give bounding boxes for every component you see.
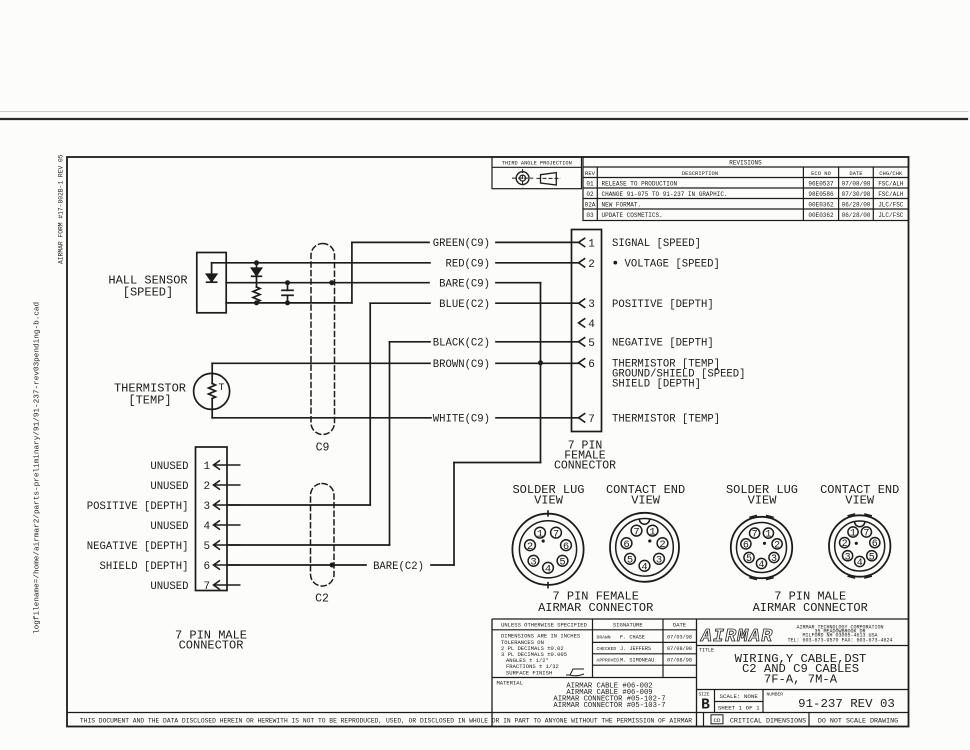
svg-text:1: 1 bbox=[204, 461, 211, 473]
svg-text:UNUSED: UNUSED bbox=[150, 521, 188, 533]
svg-text:7: 7 bbox=[633, 526, 639, 538]
svg-text:2: 2 bbox=[842, 539, 848, 550]
svg-text:FSC/ALH: FSC/ALH bbox=[878, 180, 904, 187]
svg-text:THIRD ANGLE PROJECTION: THIRD ANGLE PROJECTION bbox=[502, 160, 572, 166]
svg-text:4: 4 bbox=[588, 319, 595, 331]
svg-text:FSC/ALH: FSC/ALH bbox=[878, 191, 904, 198]
svg-text:06/28/00: 06/28/00 bbox=[842, 212, 871, 219]
svg-text:2: 2 bbox=[204, 481, 211, 493]
svg-text:JLC/FSC: JLC/FSC bbox=[878, 201, 904, 208]
svg-text:UPDATE COSMETICS.: UPDATE COSMETICS. bbox=[602, 212, 663, 219]
svg-text:00E0362: 00E0362 bbox=[808, 212, 834, 219]
svg-text:SHIELD [DEPTH]: SHIELD [DEPTH] bbox=[612, 379, 701, 391]
svg-text:DRAWN: DRAWN bbox=[597, 635, 611, 641]
svg-text:1: 1 bbox=[765, 530, 771, 541]
svg-text:[SPEED]: [SPEED] bbox=[123, 286, 173, 300]
svg-text:SIZE: SIZE bbox=[699, 691, 710, 697]
svg-text:2: 2 bbox=[588, 259, 595, 271]
svg-text:6: 6 bbox=[872, 539, 878, 550]
svg-text:02: 02 bbox=[586, 191, 594, 198]
svg-text:DATE: DATE bbox=[673, 622, 687, 629]
svg-text:SCALE: NONE: SCALE: NONE bbox=[720, 693, 759, 700]
svg-text:06/28/00: 06/28/00 bbox=[842, 201, 871, 208]
svg-text:SIGNATURE: SIGNATURE bbox=[613, 622, 643, 629]
svg-text:6: 6 bbox=[588, 359, 595, 371]
svg-text:96E0537: 96E0537 bbox=[808, 180, 834, 187]
svg-text:4: 4 bbox=[857, 558, 863, 569]
svg-text:C2: C2 bbox=[315, 593, 329, 606]
svg-text:CONNECTOR: CONNECTOR bbox=[179, 638, 244, 652]
svg-text:CHG/CHK: CHG/CHK bbox=[879, 170, 903, 177]
svg-text:AIRMAR CONNECTOR: AIRMAR CONNECTOR bbox=[538, 601, 653, 615]
svg-text:SIGNAL [SPEED]: SIGNAL [SPEED] bbox=[612, 238, 701, 250]
svg-text:UNLESS OTHERWISE SPECIFIED: UNLESS OTHERWISE SPECIFIED bbox=[501, 622, 588, 629]
svg-text:logfilename=/home/airmar2/part: logfilename=/home/airmar2/parts-prelimin… bbox=[34, 302, 42, 634]
svg-text:7: 7 bbox=[204, 581, 211, 593]
svg-text:5: 5 bbox=[746, 554, 752, 565]
svg-text:07/08/98: 07/08/98 bbox=[667, 657, 692, 663]
svg-text:UNUSED: UNUSED bbox=[150, 581, 188, 593]
svg-text:[TEMP]: [TEMP] bbox=[128, 394, 171, 408]
svg-text:7: 7 bbox=[863, 529, 869, 540]
svg-text:B: B bbox=[701, 698, 710, 714]
svg-text:3: 3 bbox=[204, 501, 211, 513]
svg-text:NEGATIVE [DEPTH]: NEGATIVE [DEPTH] bbox=[87, 541, 189, 553]
svg-text:RED(C9): RED(C9) bbox=[445, 259, 490, 271]
svg-text:07/30/98: 07/30/98 bbox=[842, 191, 871, 198]
svg-text:1: 1 bbox=[588, 238, 595, 250]
svg-text:03: 03 bbox=[586, 212, 594, 219]
svg-text:RELEASE TO PRODUCTION: RELEASE TO PRODUCTION bbox=[602, 180, 678, 187]
svg-text:CHANGE 91-075 TO 91-237 IN GRA: CHANGE 91-075 TO 91-237 IN GRAPHIC. bbox=[602, 191, 728, 198]
svg-text:UNUSED: UNUSED bbox=[150, 461, 188, 473]
svg-text:VOLTAGE [SPEED]: VOLTAGE [SPEED] bbox=[625, 259, 720, 271]
svg-text:CONNECTOR: CONNECTOR bbox=[554, 459, 616, 472]
svg-text:UNUSED: UNUSED bbox=[150, 481, 188, 493]
svg-text:C9: C9 bbox=[316, 442, 330, 455]
svg-text:NEGATIVE [DEPTH]: NEGATIVE [DEPTH] bbox=[612, 338, 714, 350]
svg-text:SURFACE FINISH: SURFACE FINISH bbox=[506, 670, 552, 677]
svg-text:DATE: DATE bbox=[849, 170, 863, 177]
svg-text:02A: 02A bbox=[585, 201, 596, 208]
svg-text:F. CHASE: F. CHASE bbox=[620, 635, 645, 641]
svg-text:BROWN(C9): BROWN(C9) bbox=[433, 359, 490, 371]
svg-text:6: 6 bbox=[563, 541, 569, 553]
svg-text:ECO NO: ECO NO bbox=[811, 170, 832, 177]
svg-text:3: 3 bbox=[771, 554, 777, 565]
svg-text:07/03/98: 07/03/98 bbox=[667, 635, 692, 641]
svg-text:4: 4 bbox=[545, 564, 551, 576]
svg-text:07/08/98: 07/08/98 bbox=[842, 180, 871, 187]
svg-text:2: 2 bbox=[527, 541, 533, 553]
svg-text:6: 6 bbox=[204, 561, 211, 573]
svg-text:98E0586: 98E0586 bbox=[808, 191, 834, 198]
svg-text:AIRMAR CONNECTOR: AIRMAR CONNECTOR bbox=[753, 601, 868, 615]
svg-text:BARE(C9): BARE(C9) bbox=[439, 279, 490, 291]
svg-text:2: 2 bbox=[774, 541, 780, 552]
svg-text:00E0362: 00E0362 bbox=[808, 201, 834, 208]
svg-text:NUMBER: NUMBER bbox=[767, 692, 784, 698]
svg-text:J. JEFFERS: J. JEFFERS bbox=[620, 646, 651, 652]
svg-text:CHECKED: CHECKED bbox=[597, 646, 617, 652]
svg-text:POSITIVE [DEPTH]: POSITIVE [DEPTH] bbox=[87, 501, 189, 513]
svg-text:7: 7 bbox=[752, 530, 758, 541]
svg-text:TITLE: TITLE bbox=[699, 647, 714, 653]
svg-text:VIEW: VIEW bbox=[748, 493, 778, 507]
svg-text:VIEW: VIEW bbox=[534, 493, 564, 507]
svg-text:CRITICAL DIMENSIONS: CRITICAL DIMENSIONS bbox=[730, 717, 806, 725]
svg-text:3: 3 bbox=[845, 552, 851, 563]
svg-text:1: 1 bbox=[850, 529, 856, 540]
svg-text:91-237 REV 03: 91-237 REV 03 bbox=[798, 697, 895, 711]
svg-text:2: 2 bbox=[659, 539, 665, 551]
svg-text:07/08/98: 07/08/98 bbox=[667, 646, 692, 652]
svg-text:APPROVED: APPROVED bbox=[597, 657, 620, 663]
svg-text:VIEW: VIEW bbox=[631, 493, 661, 507]
svg-text:5: 5 bbox=[559, 557, 565, 569]
svg-text:SHIELD [DEPTH]: SHIELD [DEPTH] bbox=[99, 561, 188, 573]
svg-text:JLC/FSC: JLC/FSC bbox=[878, 212, 904, 219]
svg-text:5: 5 bbox=[627, 555, 633, 567]
svg-text:7: 7 bbox=[553, 528, 559, 540]
svg-text:REVISIONS: REVISIONS bbox=[729, 160, 762, 167]
svg-text:4: 4 bbox=[204, 521, 211, 533]
svg-text:BARE(C2): BARE(C2) bbox=[373, 561, 424, 573]
svg-text:AIRMAR CONNECTOR #05-103-7: AIRMAR CONNECTOR #05-103-7 bbox=[553, 702, 665, 710]
svg-text:5: 5 bbox=[869, 552, 875, 563]
svg-text:WHITE(C9): WHITE(C9) bbox=[433, 414, 490, 426]
svg-text:NEW FORMAT.: NEW FORMAT. bbox=[602, 201, 642, 208]
svg-text:M. SIMONEAU: M. SIMONEAU bbox=[620, 657, 654, 663]
svg-text:7F-A, 7M-A: 7F-A, 7M-A bbox=[764, 672, 838, 686]
svg-text:7: 7 bbox=[588, 414, 595, 426]
svg-text:3: 3 bbox=[588, 299, 595, 311]
svg-text:AIRMAR: AIRMAR bbox=[700, 627, 772, 647]
svg-text:DESCRIPTION: DESCRIPTION bbox=[682, 170, 718, 177]
svg-text:SHEET 1 OF 1: SHEET 1 OF 1 bbox=[718, 704, 760, 711]
svg-text:VIEW: VIEW bbox=[845, 493, 875, 507]
svg-text:TEL: 603-673-9570 FAX: 603-67: TEL: 603-673-9570 FAX: 603-673-4624 bbox=[787, 638, 892, 644]
svg-text:4: 4 bbox=[641, 562, 647, 574]
svg-text:BLUE(C2): BLUE(C2) bbox=[439, 299, 490, 311]
svg-text:T: T bbox=[219, 383, 225, 394]
svg-text:3: 3 bbox=[530, 557, 536, 569]
svg-text:4: 4 bbox=[758, 560, 764, 571]
svg-text:BLACK(C2): BLACK(C2) bbox=[433, 338, 490, 350]
svg-text:DO NOT SCALE DRAWING: DO NOT SCALE DRAWING bbox=[818, 717, 898, 725]
svg-text:THERMISTOR [TEMP]: THERMISTOR [TEMP] bbox=[612, 414, 720, 426]
svg-text:CD: CD bbox=[714, 717, 721, 724]
svg-text:01: 01 bbox=[586, 180, 594, 187]
svg-text:1: 1 bbox=[537, 528, 543, 540]
svg-text:3: 3 bbox=[656, 555, 662, 567]
svg-text:MATERIAL: MATERIAL bbox=[497, 679, 523, 686]
svg-text:6: 6 bbox=[743, 541, 749, 552]
svg-text:GREEN(C9): GREEN(C9) bbox=[433, 238, 490, 250]
svg-text:5: 5 bbox=[204, 541, 211, 553]
svg-text:5: 5 bbox=[588, 338, 595, 350]
svg-text:THIS DOCUMENT AND THE DATA DIS: THIS DOCUMENT AND THE DATA DISCLOSED HER… bbox=[80, 717, 692, 724]
svg-text:AIRMAR FORM #17-802B-1 REV 05: AIRMAR FORM #17-802B-1 REV 05 bbox=[58, 154, 65, 264]
svg-text:REV: REV bbox=[585, 170, 596, 177]
svg-text:6: 6 bbox=[623, 539, 629, 551]
svg-text:POSITIVE [DEPTH]: POSITIVE [DEPTH] bbox=[612, 299, 714, 311]
svg-text:1: 1 bbox=[649, 526, 655, 538]
